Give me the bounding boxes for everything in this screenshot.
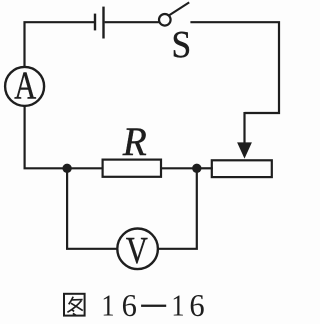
wire right junction to rheostat [200,167,213,169]
rheostat RP body [212,160,272,177]
battery cell [95,7,104,39]
wire top-left (ammeter top to battery negative) [25,22,95,66]
ammeter A1 [5,64,44,107]
svg-text:R: R [122,119,147,165]
svg-text:1: 1 [101,288,114,322]
voltmeter V1 [117,229,158,273]
svg-text:6: 6 [189,287,204,323]
resistor R body [103,160,161,177]
label R [122,119,147,165]
junction node right [192,164,201,173]
wire switch to top-right corner, down right side, step left [190,22,279,113]
label S [171,24,191,67]
junction node left [62,164,71,173]
caption text 16-16 [101,287,204,323]
switch S blade [169,2,189,15]
wire ammeter bottom to left junction [25,106,64,168]
wire voltmeter to right junction [158,171,197,249]
svg-text:A: A [14,64,36,107]
wire left junction down to voltmeter [67,171,117,249]
wire battery to switch [105,21,159,23]
svg-text:1: 1 [171,288,184,322]
wire resistor to right junction [161,167,194,169]
wire junction to resistor R [70,167,102,169]
rheostat slider arrow [237,112,252,159]
svg-text:6: 6 [122,287,137,323]
svg-text:S: S [171,24,191,67]
caption character 图 [64,294,85,316]
svg-text:V: V [126,230,148,272]
switch S pivot [159,14,171,26]
